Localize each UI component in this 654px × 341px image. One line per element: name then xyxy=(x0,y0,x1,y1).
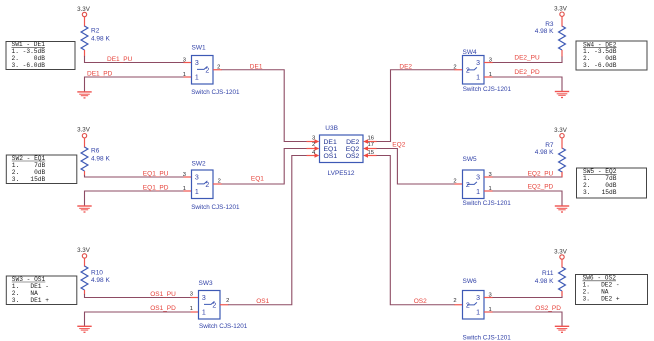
resistor R11 4.98K xyxy=(535,267,566,296)
pin stub SW5 pin2 xyxy=(455,183,463,185)
resistor R7 4.98K xyxy=(535,142,566,177)
svg-text:2. 0dB: 2. 0dB xyxy=(12,169,46,176)
power 3.3V (left row 3) xyxy=(77,247,91,266)
svg-text:3.3V: 3.3V xyxy=(77,126,91,133)
svg-text:2: 2 xyxy=(226,298,229,304)
U3B pin 4 OS1 xyxy=(307,150,320,158)
svg-text:4.98 K: 4.98 K xyxy=(535,278,554,285)
U3B pin 3 DE1 xyxy=(307,136,320,144)
wire EQ1_PD xyxy=(85,191,185,206)
svg-text:Switch CJS-1201: Switch CJS-1201 xyxy=(463,200,512,207)
svg-text:3.3V: 3.3V xyxy=(77,247,91,254)
svg-text:DE1_PU: DE1_PU xyxy=(107,56,133,63)
svg-text:3. DE1 +: 3. DE1 + xyxy=(12,297,49,304)
power 3.3V (left row 2) xyxy=(77,126,91,147)
pin stub SW6 pin3 xyxy=(484,297,493,299)
svg-text:EQ1_PD: EQ1_PD xyxy=(143,184,169,191)
wire DE1 xyxy=(222,70,307,142)
wire OS2_PD xyxy=(493,312,563,326)
svg-text:OS1: OS1 xyxy=(256,298,269,305)
svg-text:3. 15dB: 3. 15dB xyxy=(12,176,46,183)
note box SW3-OS1 xyxy=(6,276,77,305)
pin stub SW1 pin1 xyxy=(184,76,192,78)
svg-text:3: 3 xyxy=(195,175,199,182)
svg-text:3: 3 xyxy=(488,292,491,298)
svg-text:Switch CJS-1201: Switch CJS-1201 xyxy=(463,334,512,341)
svg-text:1: 1 xyxy=(488,307,491,313)
svg-text:2. 0dB: 2. 0dB xyxy=(583,182,617,189)
svg-text:3: 3 xyxy=(476,175,480,182)
svg-text:3: 3 xyxy=(476,295,480,302)
svg-text:3: 3 xyxy=(183,172,186,178)
wire DE2_PD xyxy=(493,77,563,91)
pin stub SW4 pin1 xyxy=(484,76,493,78)
svg-text:1: 1 xyxy=(488,186,491,192)
svg-text:1: 1 xyxy=(202,310,206,317)
svg-text:Switch CJS-1201: Switch CJS-1201 xyxy=(191,204,240,211)
svg-text:2: 2 xyxy=(466,67,470,74)
svg-text:Switch CJS-1201: Switch CJS-1201 xyxy=(463,86,512,93)
U3B pin 15 OS2 xyxy=(363,150,377,158)
svg-text:SW3: SW3 xyxy=(199,280,213,287)
svg-text:2: 2 xyxy=(466,182,470,189)
ground (right row 3) xyxy=(555,326,569,332)
pin stub SW5 pin1 xyxy=(484,190,493,192)
note box SW2-EQ1 xyxy=(6,155,77,184)
note box SW5-EQ2 xyxy=(577,168,647,198)
svg-text:1: 1 xyxy=(476,189,480,196)
svg-text:1. DE2 -: 1. DE2 - xyxy=(583,282,620,289)
pin stub SW5 pin3 xyxy=(484,176,493,178)
svg-text:1: 1 xyxy=(489,72,492,78)
svg-text:DE1: DE1 xyxy=(250,63,263,70)
ground (right row 2) xyxy=(555,206,569,212)
svg-text:2: 2 xyxy=(453,298,456,304)
U3B pin 2 EQ1 xyxy=(307,142,320,151)
resistor R10 4.98K xyxy=(81,266,110,295)
svg-text:OS1: OS1 xyxy=(324,153,338,160)
pin stub SW3 pin2 xyxy=(220,304,228,306)
switch SW2 xyxy=(191,160,240,211)
svg-text:OS2: OS2 xyxy=(414,298,427,305)
pin stub SW4 pin2 xyxy=(455,69,463,71)
svg-text:1. DE1 -: 1. DE1 - xyxy=(12,283,49,290)
svg-text:U3B: U3B xyxy=(325,125,338,132)
svg-text:2: 2 xyxy=(212,302,216,309)
power 3.3V (left row 1) xyxy=(77,6,91,27)
svg-text:2. NA: 2. NA xyxy=(12,290,38,297)
resistor R3 4.98K xyxy=(535,21,566,57)
svg-text:1: 1 xyxy=(183,72,186,78)
svg-text:DE2_PU: DE2_PU xyxy=(514,55,540,62)
svg-text:SW4: SW4 xyxy=(463,49,477,56)
pin stub SW6 pin1 xyxy=(484,311,493,313)
pin stub SW3 pin1 xyxy=(191,311,199,313)
U3B pin 16 DE2 xyxy=(363,136,377,144)
svg-text:17: 17 xyxy=(368,142,374,148)
wire OS1_PU xyxy=(85,294,192,298)
wire EQ2 xyxy=(377,149,455,185)
svg-text:1. 7dB: 1. 7dB xyxy=(583,175,617,182)
svg-text:3. -6.0dB: 3. -6.0dB xyxy=(12,62,46,69)
svg-text:3.3V: 3.3V xyxy=(554,127,568,134)
svg-text:1: 1 xyxy=(195,189,199,196)
note box SW1-DE1 xyxy=(6,41,75,69)
svg-text:4.98 K: 4.98 K xyxy=(91,35,110,42)
svg-text:OS2_PD: OS2_PD xyxy=(535,305,561,312)
svg-text:EQ2_PD: EQ2_PD xyxy=(528,183,554,190)
svg-text:Switch CJS-1201: Switch CJS-1201 xyxy=(191,89,240,96)
wire DE2_PU xyxy=(493,56,563,63)
svg-text:2. NA: 2. NA xyxy=(583,289,609,296)
svg-text:SW5: SW5 xyxy=(463,156,477,163)
wire OS2 xyxy=(377,156,455,305)
svg-text:3: 3 xyxy=(195,60,199,67)
ground (right row 1) xyxy=(555,92,569,98)
svg-text:DE2: DE2 xyxy=(399,63,412,70)
svg-text:4.98 K: 4.98 K xyxy=(91,155,110,162)
svg-text:1: 1 xyxy=(183,186,186,192)
svg-text:OS1_PU: OS1_PU xyxy=(150,291,176,298)
svg-text:15: 15 xyxy=(368,150,374,156)
wire DE2 xyxy=(377,70,455,142)
pin stub SW1 pin2 xyxy=(213,69,222,71)
op-amp U3B LVPE512 xyxy=(320,125,364,177)
svg-text:R6: R6 xyxy=(91,148,100,155)
svg-text:2: 2 xyxy=(205,67,209,74)
resistor R6 4.98K xyxy=(81,147,110,176)
ground (left row 1) xyxy=(77,92,91,98)
svg-text:3: 3 xyxy=(489,57,492,63)
pin stub SW1 pin3 xyxy=(184,62,192,64)
switch SW3 xyxy=(199,280,248,330)
power 3.3V (right row 3) xyxy=(554,249,568,268)
wire DE1_PD xyxy=(85,77,185,92)
svg-text:1. 7dB: 1. 7dB xyxy=(12,162,46,169)
svg-text:EQ2_PU: EQ2_PU xyxy=(528,171,554,178)
wire OS2_PU xyxy=(493,291,563,298)
svg-text:16: 16 xyxy=(368,136,374,142)
svg-text:LVPE512: LVPE512 xyxy=(328,170,355,177)
svg-text:3. DE2 +: 3. DE2 + xyxy=(583,296,620,303)
note box SW6-OS2 xyxy=(576,275,648,305)
svg-text:2: 2 xyxy=(218,179,221,185)
svg-text:4.98 K: 4.98 K xyxy=(91,277,110,284)
svg-text:4.98 K: 4.98 K xyxy=(535,28,554,35)
svg-text:3: 3 xyxy=(183,57,186,63)
svg-text:Switch CJS-1201: Switch CJS-1201 xyxy=(199,323,248,330)
svg-text:DE1: DE1 xyxy=(324,139,337,146)
pin stub SW3 pin3 xyxy=(191,297,199,299)
wire EQ1_PU xyxy=(85,175,185,177)
pin stub SW2 pin2 xyxy=(213,183,222,185)
svg-text:DE1_PD: DE1_PD xyxy=(87,71,113,78)
wire EQ2_PU xyxy=(493,171,563,177)
svg-text:R2: R2 xyxy=(91,27,100,34)
svg-text:EQ2: EQ2 xyxy=(392,141,405,148)
svg-text:3. -6.0dB: 3. -6.0dB xyxy=(583,62,617,69)
switch SW6 xyxy=(463,278,512,341)
svg-text:EQ1_PU: EQ1_PU xyxy=(143,170,169,177)
wire EQ1 xyxy=(222,149,307,185)
svg-text:3.3V: 3.3V xyxy=(554,5,568,12)
svg-text:2: 2 xyxy=(466,302,470,309)
switch SW4 xyxy=(463,49,512,93)
pin stub SW2 pin1 xyxy=(184,190,192,192)
svg-text:2: 2 xyxy=(217,64,220,70)
svg-text:R10: R10 xyxy=(91,269,103,276)
svg-text:EQ2: EQ2 xyxy=(346,146,360,153)
svg-text:EQ1: EQ1 xyxy=(324,146,338,153)
ground (left row 3) xyxy=(77,326,91,332)
U3B pin 17 EQ2 xyxy=(363,142,377,151)
power 3.3V (right row 2) xyxy=(554,127,568,148)
pin stub SW2 pin3 xyxy=(184,176,192,178)
svg-text:SW1: SW1 xyxy=(192,45,206,52)
wire OS1_PD xyxy=(85,312,192,326)
resistor R2 4.98K xyxy=(81,26,110,57)
wire EQ2_PD xyxy=(493,191,563,206)
svg-text:DE2_PD: DE2_PD xyxy=(514,69,540,76)
svg-text:3: 3 xyxy=(488,172,491,178)
svg-text:2: 2 xyxy=(205,182,209,189)
svg-text:SW2: SW2 xyxy=(192,160,206,167)
svg-text:1: 1 xyxy=(476,75,480,82)
svg-text:3: 3 xyxy=(190,291,193,297)
svg-text:R11: R11 xyxy=(542,270,554,277)
pin stub SW6 pin2 xyxy=(455,304,463,306)
wire DE1_PU xyxy=(85,56,185,63)
svg-text:OS1_PD: OS1_PD xyxy=(150,305,176,312)
svg-text:2: 2 xyxy=(312,142,315,148)
svg-text:OS2: OS2 xyxy=(346,153,360,160)
svg-text:1: 1 xyxy=(195,75,199,82)
svg-text:SW6: SW6 xyxy=(463,278,477,285)
note box SW4-DE2 xyxy=(576,41,647,70)
switch SW1 xyxy=(191,45,240,97)
svg-text:DE2: DE2 xyxy=(346,139,359,146)
switch SW5 xyxy=(463,156,512,207)
svg-text:1: 1 xyxy=(190,306,193,312)
svg-text:3: 3 xyxy=(312,136,315,142)
svg-text:3. 15dB: 3. 15dB xyxy=(583,189,617,196)
pin stub SW4 pin3 xyxy=(484,62,493,64)
svg-text:3: 3 xyxy=(476,60,480,67)
wire OS1 xyxy=(228,156,307,305)
ground (left row 2) xyxy=(77,206,91,212)
svg-text:4.98 K: 4.98 K xyxy=(535,149,554,156)
svg-text:3.3V: 3.3V xyxy=(77,6,91,13)
svg-text:1: 1 xyxy=(476,310,480,317)
svg-text:3: 3 xyxy=(202,295,206,302)
power 3.3V (right row 1) xyxy=(554,5,568,26)
svg-text:EQ1: EQ1 xyxy=(251,176,264,183)
